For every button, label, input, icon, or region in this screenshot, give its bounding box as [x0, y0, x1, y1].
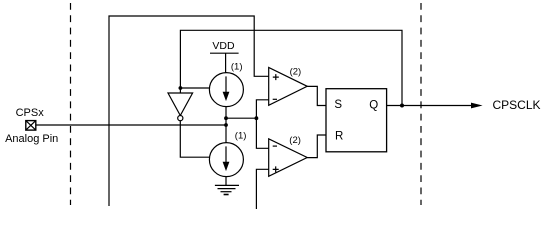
wire: sense node to comparator minus inputs	[226, 117, 256, 119]
inverter U3	[168, 88, 193, 121]
wire: comparator U2 + input reference going off-page bottom	[256, 169, 268, 209]
svg-text:VDD: VDD	[212, 40, 235, 52]
svg-text:(1): (1)	[231, 62, 243, 73]
wire: between current sources	[225, 107, 227, 143]
current source I2 (bottom)	[209, 143, 243, 177]
svg-text:CPSx: CPSx	[16, 107, 45, 119]
wire: inner feedback loop (Q node up, top rail, down to inverter input node)	[180, 30, 402, 105]
arrowhead CPSCLK	[471, 103, 483, 109]
op-amp U1 (upper comparator)	[269, 68, 308, 106]
node A (inverter input / source control junction)	[179, 86, 183, 90]
node E (feedback tap on Q)	[400, 104, 404, 108]
svg-text:Analog Pin: Analog Pin	[5, 133, 58, 145]
wire: minus input bus of U1 and U2	[256, 100, 268, 149]
SR latch U4	[326, 89, 387, 152]
wire: VDD to current source I1	[225, 53, 227, 72]
svg-text:(2): (2)	[289, 135, 301, 146]
wire: outer feedback loop (left vertical, top rail, down to comparator U1 + input)	[109, 16, 269, 206]
ground	[215, 177, 239, 195]
pin symbol CPSx	[26, 121, 36, 131]
svg-text:R: R	[335, 130, 343, 142]
current source I1 (top)	[209, 73, 243, 107]
svg-text:Q: Q	[369, 100, 378, 112]
node D	[255, 116, 259, 120]
left module boundary dashed line	[70, 3, 72, 205]
op-amp U2 (lower comparator)	[269, 139, 308, 177]
node B (comparator sense tap)	[224, 116, 228, 120]
wire: U2 output to latch R input	[307, 135, 326, 158]
node C (pin wire junction)	[224, 123, 228, 127]
wire: CPSx pin to current-source node	[36, 124, 226, 126]
svg-text:CPSCLK: CPSCLK	[493, 98, 541, 112]
wire: Q output to CPSCLK	[387, 105, 472, 107]
VDD rail bar	[210, 52, 239, 54]
wire: inverter output through pin wire down to control line of I2	[180, 121, 210, 158]
wire: U1 output to latch S input	[307, 86, 326, 105]
svg-text:S: S	[334, 99, 342, 111]
svg-text:(2): (2)	[290, 66, 302, 77]
wire: control line to current source I1	[180, 87, 209, 89]
right module boundary dashed line	[420, 3, 422, 205]
svg-text:(1): (1)	[235, 130, 247, 141]
